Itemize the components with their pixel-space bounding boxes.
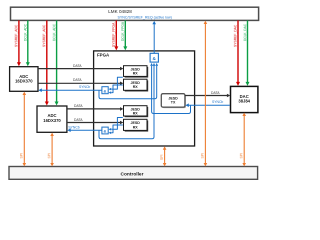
wire DATA ADC U1 lane 1 — [38, 64, 123, 70]
wire DCLK to FPGA (green) — [123, 20, 127, 50]
wire SYSREF to DAC (red) — [236, 20, 240, 86]
wire SPI controller to LMK (orange) — [204, 21, 208, 167]
svg-text:DCLK_ADC: DCLK_ADC — [24, 23, 28, 41]
wire JESD RX1 sync to gate A1 — [109, 77, 123, 90]
svg-text:LMK 04828: LMK 04828 — [108, 9, 132, 14]
wire SPI controller to FPGA (orange) — [163, 146, 167, 166]
wire SPI controller to ADC U1 (orange) — [23, 92, 27, 167]
svg-text:FPGA: FPGA — [97, 53, 110, 58]
controller box — [9, 167, 258, 180]
svg-text:SPI: SPI — [160, 154, 164, 160]
svg-text:&: & — [104, 129, 107, 134]
wire DATA JESD TX to DAC — [185, 91, 230, 97]
svg-text:16DX370: 16DX370 — [43, 118, 61, 123]
svg-text:RX: RX — [133, 72, 139, 76]
svg-text:DATA: DATA — [74, 104, 83, 108]
svg-text:SPI: SPI — [20, 153, 24, 159]
svg-text:DATA: DATA — [73, 64, 82, 68]
wire SYSREF to ADC U1 (red) — [17, 20, 21, 66]
wire group1 SYNC loop to gate B0 — [99, 63, 158, 99]
wire DCLK to ADC U1 (green) — [26, 20, 30, 66]
ADC U1 ADC16DX370 — [10, 67, 38, 92]
svg-text:SYNCb: SYNCb — [212, 100, 223, 104]
svg-text:SYNCb: SYNCb — [68, 125, 79, 129]
svg-text:SYNCb: SYNCb — [79, 85, 90, 89]
svg-text:SYSREF_ADC: SYSREF_ADC — [42, 24, 46, 47]
wire SPI controller to DAC (orange) — [242, 113, 246, 167]
wire DATA ADC U2 lane 2 — [67, 118, 124, 124]
svg-text:SYSREF_FPGA: SYSREF_FPGA — [112, 22, 116, 47]
svg-text:38J84: 38J84 — [238, 99, 250, 104]
svg-text:RX: RX — [133, 125, 139, 129]
wire DATA ADC U2 lane 1 — [67, 104, 124, 111]
svg-text:RX: RX — [133, 111, 139, 115]
AND gate A2 (group 2 SYNC) — [102, 127, 108, 134]
svg-text:&: & — [104, 88, 107, 93]
wire DCLK to DAC (green) — [246, 20, 250, 86]
svg-text:RX: RX — [133, 85, 139, 89]
clock generator LMK04828 box — [11, 7, 259, 20]
wire SYNCb to ADC U1 (blue) — [38, 85, 102, 92]
svg-text:SYSREF_ADC: SYSREF_ADC — [14, 24, 18, 47]
svg-text:SYSREF_DAC: SYSREF_DAC — [233, 24, 237, 47]
svg-text:DCLK_ADC: DCLK_ADC — [52, 23, 56, 41]
svg-text:SPI: SPI — [201, 153, 205, 159]
JESD TX block — [161, 94, 186, 108]
wire SYSREF to FPGA (red) — [114, 20, 118, 50]
svg-text:DCLK_DAC: DCLK_DAC — [243, 23, 247, 41]
DAC U3 DAC38J84 — [231, 86, 258, 112]
FPGA box — [94, 51, 195, 146]
wire DATA ADC U1 lane 2 — [38, 78, 123, 85]
AND gate A1 (group 1 SYNC) — [102, 87, 108, 94]
wire SYSREF to ADC U2 (red) — [45, 20, 49, 105]
wire SYNCb DAC to JESD TX (blue) — [185, 100, 230, 107]
svg-text:SPI: SPI — [239, 153, 243, 159]
JESD RX block 2 — [124, 79, 149, 91]
svg-text:DATA: DATA — [211, 91, 220, 95]
wire JESD RX2 sync to gate A1 — [109, 85, 123, 94]
svg-text:SYNC/SYSREF_REQ (active low): SYNC/SYSREF_REQ (active low) — [118, 15, 172, 19]
svg-text:Controller: Controller — [121, 171, 144, 177]
svg-text:16DX370: 16DX370 — [15, 79, 33, 84]
ADC U2 ADC16DX370 — [37, 106, 67, 132]
svg-text:DCLK_FPGA: DCLK_FPGA — [121, 21, 125, 41]
svg-text:SPI: SPI — [47, 153, 51, 159]
JESD RX block 4 — [124, 119, 149, 131]
wire DAC SYNC branch to gate B0 — [150, 63, 190, 114]
wire JESD RX4 sync to gate A2 — [109, 125, 123, 134]
wire gate B0 to LMK SYNC/SYSREF_REQ — [152, 21, 156, 53]
svg-text:DATA: DATA — [74, 118, 83, 122]
wire group2 SYNC loop to gate B0 — [99, 63, 155, 139]
wire JESD RX3 sync to gate A2 — [109, 118, 123, 131]
wire SYNCb to ADC U2 (blue) — [67, 125, 102, 132]
wire DCLK to ADC U2 (green) — [55, 20, 59, 105]
JESD RX block 1 — [124, 66, 149, 78]
svg-text:DATA: DATA — [73, 78, 82, 82]
JESD RX block 3 — [124, 106, 149, 118]
svg-text:TX: TX — [171, 101, 176, 105]
AND gate B0 (SYNC combiner to LMK) — [150, 53, 158, 62]
wire SPI controller to ADC U2 (orange) — [50, 133, 54, 167]
